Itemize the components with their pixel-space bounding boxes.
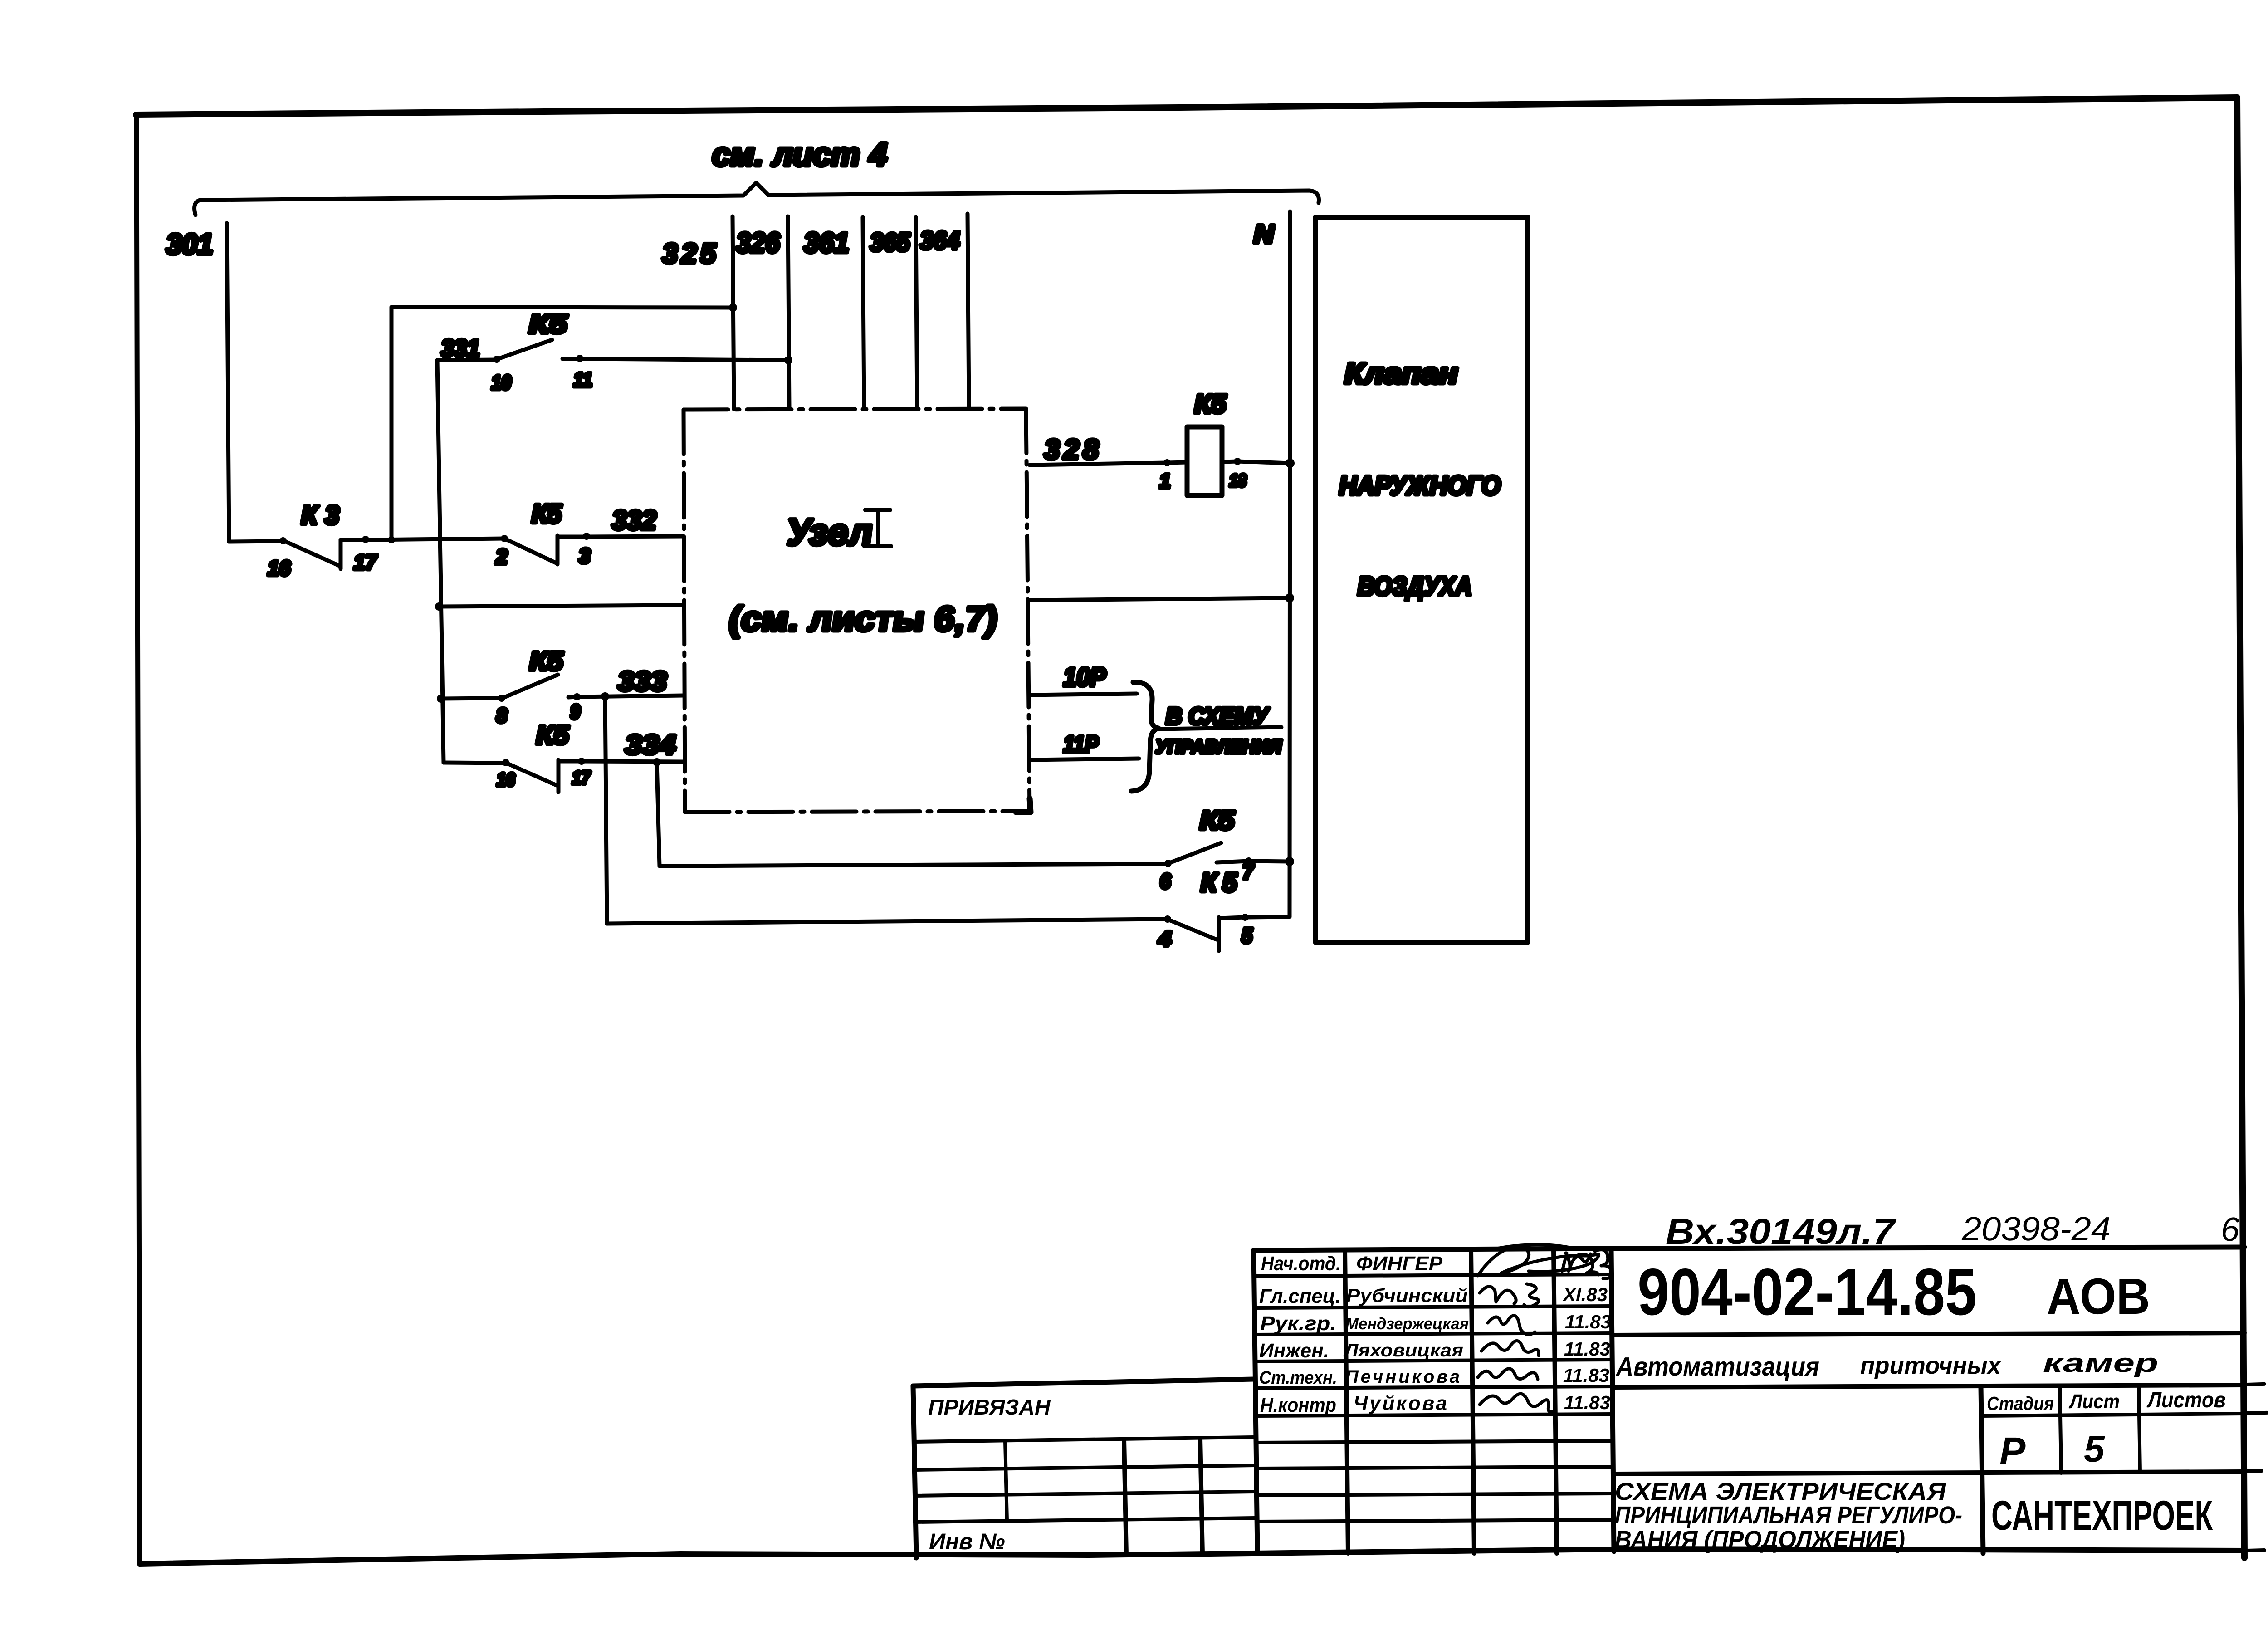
wire 301 to contact K3:16 [229, 541, 283, 542]
junction for drop to contact 6 row [653, 758, 661, 766]
wire from K5:9 to block (circuit 333) [568, 695, 684, 697]
staff table left edge [1254, 1250, 1257, 1553]
valve box Клапан наружного воздуха [1315, 217, 1528, 942]
staff table col line (date) [1554, 1249, 1557, 1553]
svg-text:4: 4 [1158, 927, 1171, 950]
svg-text:К5: К5 [529, 309, 567, 339]
svg-text:Ст.техн.: Ст.техн. [1259, 1368, 1337, 1388]
svg-text:ВАНИЯ (ПРОДОЛЖЕНИЕ): ВАНИЯ (ПРОДОЛЖЕНИЕ) [1615, 1526, 1905, 1553]
drop wire from 334 row to contact 6 row [657, 762, 1168, 866]
svg-text:ВОЗДУХА: ВОЗДУХА [1358, 572, 1472, 601]
svg-text:334: 334 [625, 729, 676, 760]
svg-text:Н.контр: Н.контр [1260, 1394, 1336, 1416]
svg-text:Мендзержецкая: Мендзержецкая [1345, 1314, 1469, 1333]
node dot at pin 17 of 334 [578, 758, 585, 765]
contact K3 16-17 (NO contact of relay K3) [279, 537, 341, 569]
svg-text:ПРИВЯЗАН: ПРИВЯЗАН [928, 1395, 1051, 1420]
PRIVYAZAN col 1 [1005, 1441, 1007, 1521]
staff row line 5 [1255, 1386, 1613, 1388]
svg-text:325: 325 [662, 238, 717, 269]
svg-text:К5: К5 [529, 646, 563, 676]
svg-text:Нач.отд.: Нач.отд. [1261, 1253, 1341, 1275]
border frame bottom [140, 1549, 2244, 1564]
PRIVYAZAN col 2 [1124, 1439, 1126, 1555]
name row bottom [1614, 1385, 2244, 1387]
wire block to N (unlabeled row) [1030, 598, 1290, 600]
block Узел I outline (dash-dot) [684, 409, 1030, 812]
junction on N at unlabeled row [1285, 593, 1294, 602]
svg-text:N: N [1254, 220, 1275, 248]
staff row line 6 [1256, 1414, 1613, 1416]
staff row line 9 [1256, 1493, 1613, 1495]
wire 301 vertical [227, 223, 229, 542]
svg-text:НАРУЖНОГО: НАРУЖНОГО [1339, 471, 1501, 500]
svg-text:Листов: Листов [2146, 1388, 2226, 1412]
svg-text:САНТЕХПРОЕК: САНТЕХПРОЕК [1991, 1493, 2213, 1539]
svg-text:364: 364 [920, 226, 960, 255]
vertical between Стадия and Лист [2060, 1386, 2061, 1473]
contact K5 2-3 (NO contact, circuit 332) [501, 535, 557, 564]
wire pin 18 to N [1237, 461, 1290, 463]
PRIVYAZAN col 3 [1200, 1438, 1202, 1555]
relay coil K5 [1187, 427, 1222, 495]
middle row wire into block [439, 605, 684, 607]
TITLE BLOCK [913, 1247, 2268, 1558]
svg-text:6: 6 [2221, 1210, 2240, 1248]
wire 365 [916, 217, 917, 409]
node dot at pin 5 [1242, 914, 1249, 921]
svg-text:17: 17 [354, 550, 377, 574]
continuation dashes right of border 3 [2246, 1470, 2268, 1471]
svg-text:10: 10 [491, 372, 511, 394]
junction 17-side node dot [362, 536, 369, 543]
svg-text:УПРАВЛЕНИЯ: УПРАВЛЕНИЯ [1155, 736, 1282, 757]
signature scribble 5 (Печникова) [1478, 1369, 1538, 1379]
svg-text:361: 361 [804, 227, 849, 259]
svg-text:ФИНГЕР: ФИНГЕР [1356, 1253, 1443, 1275]
svg-text:333: 333 [618, 666, 667, 696]
continuation dashes right of border 1 [2246, 1384, 2268, 1385]
signature scribble 3 (Мендзержецкая) [1488, 1316, 1535, 1335]
staff table right edge [1611, 1248, 1614, 1552]
border frame left [137, 116, 140, 1563]
wire from K5:11 to wire 326 [562, 359, 788, 360]
svg-text:6: 6 [1160, 869, 1171, 893]
staff row line 8 [1256, 1467, 1613, 1469]
signature scribble 6 (Чуйкова) [1480, 1394, 1556, 1412]
svg-text:В СХЕМУ: В СХЕМУ [1166, 703, 1270, 729]
junction on wire 326 [784, 356, 792, 364]
PRIVYAZAN row c [915, 1518, 1255, 1522]
svg-text:Чуйкова: Чуйкова [1354, 1392, 1447, 1415]
staff table col line (name) [1345, 1250, 1348, 1553]
svg-text:К5: К5 [1194, 389, 1227, 419]
svg-text:9: 9 [570, 701, 580, 723]
note underline [1158, 727, 1281, 729]
wire row 334 start [444, 763, 506, 763]
border frame right [2237, 98, 2244, 1558]
date scribble row1 (И.83) [1562, 1250, 1612, 1279]
staff row line 7 [1256, 1441, 1613, 1443]
wire riser to 325 feeder row [390, 307, 394, 540]
contact K5 4-5 (NC contact) [1164, 915, 1219, 951]
svg-text:20398-24: 20398-24 [1961, 1210, 2111, 1248]
PRIVYAZAN header bottom [914, 1437, 1254, 1442]
svg-text:18: 18 [1229, 471, 1247, 490]
bracket line to sheet 4 [195, 183, 1319, 215]
svg-text:(см. листы 6,7): (см. листы 6,7) [727, 600, 1001, 638]
junction for drop to contact 4 row [601, 692, 609, 700]
block corner arrow tick [1016, 798, 1031, 812]
svg-text:11: 11 [573, 369, 592, 391]
date scribble 1 [1566, 1253, 1598, 1275]
signature scribble 1 (Фингер) [1478, 1245, 1599, 1276]
svg-text:11.83: 11.83 [1564, 1338, 1610, 1360]
PRIVYAZAN table left edge [913, 1386, 916, 1558]
svg-text:17: 17 [572, 768, 591, 788]
wire coil to pin 18 [1222, 461, 1237, 462]
wire 325 [733, 216, 734, 409]
svg-text:2: 2 [495, 545, 508, 568]
staff row line 4 [1255, 1360, 1613, 1361]
junction at riser to 325 row [388, 536, 395, 543]
svg-text:Лист: Лист [2068, 1390, 2120, 1413]
brace to control circuit [1131, 682, 1158, 791]
wire 364 [968, 214, 969, 408]
wire 361 [863, 217, 864, 409]
svg-text:332: 332 [612, 505, 656, 535]
wire from K5:17 to block (circuit 334) [558, 761, 684, 762]
wire pin1 to coil [1167, 462, 1187, 463]
signature scribble 4 (Ляховицкая) [1481, 1341, 1539, 1356]
staff row line 3 [1255, 1333, 1613, 1335]
node dot at pin 9 [573, 693, 581, 700]
svg-text:приточных: приточных [1860, 1352, 2002, 1379]
contact K5 6-7 (NO contact) [1164, 843, 1221, 867]
staff table col line (signature) [1471, 1249, 1474, 1553]
svg-text:Клапан: Клапан [1344, 357, 1458, 390]
staff row line 10 [1256, 1520, 1613, 1522]
node dot at pin 7 [1245, 857, 1252, 865]
svg-text:АОВ: АОВ [2047, 1268, 2150, 1325]
svg-text:301: 301 [166, 228, 213, 260]
signature scribble 2 (Рубчинский) [1480, 1284, 1539, 1307]
svg-text:Рубчинский: Рубчинский [1346, 1285, 1468, 1306]
node dot at pin 11 [576, 355, 583, 362]
stadia header bottom [1981, 1414, 2244, 1416]
svg-text:камер: камер [2043, 1348, 2158, 1378]
svg-text:К5: К5 [536, 720, 569, 750]
svg-text:11Р: 11Р [1063, 731, 1099, 758]
svg-text:1: 1 [1159, 470, 1170, 492]
continuation dashes right of border 2 [2246, 1412, 2268, 1413]
svg-text:11.83: 11.83 [1563, 1365, 1609, 1386]
svg-text:Ляховицкая: Ляховицкая [1343, 1341, 1463, 1361]
svg-text:904-02-14.85: 904-02-14.85 [1637, 1255, 1977, 1329]
svg-text:К5: К5 [532, 499, 562, 529]
wire 328 from block to relay coil [1030, 463, 1167, 465]
contact K5 8-9 (NO contact, circuit 333) [498, 675, 558, 702]
roman numeral I of block name [865, 510, 891, 546]
continuation dashes right of border 4 [2246, 1550, 2268, 1551]
svg-text:16: 16 [497, 770, 515, 790]
wire 332 from K5:3 to block [557, 536, 684, 537]
staff row line 2 [1255, 1306, 1612, 1308]
svg-text:11.83: 11.83 [1565, 1311, 1611, 1332]
svg-text:10Р: 10Р [1063, 662, 1106, 692]
border frame top [136, 98, 2237, 115]
wire from K5:7 to N [1217, 861, 1290, 862]
svg-text:Автоматизация: Автоматизация [1615, 1352, 1819, 1381]
wire after K3:17 across to K5:2 [341, 539, 504, 540]
svg-text:Вх.30149л.7: Вх.30149л.7 [1666, 1211, 1897, 1252]
drop wire from 333 row to contact 4 row [605, 696, 1168, 924]
svg-text:Гл.спец.: Гл.спец. [1259, 1285, 1341, 1307]
svg-text:328: 328 [1044, 434, 1099, 465]
PRIVYAZAN row b [914, 1492, 1255, 1496]
PRIVYAZAN table outline top [913, 1379, 1254, 1386]
stadia cells bottom [1614, 1472, 2244, 1474]
svg-text:365: 365 [870, 228, 910, 256]
wire row 333 start [441, 698, 502, 699]
contact K5 16-17 (NC contact, circuit 334) [502, 759, 558, 792]
wire 326 [788, 216, 789, 409]
junction on wire 325 [729, 304, 737, 312]
node dot pin 1 [1163, 459, 1171, 466]
svg-text:11.83: 11.83 [1564, 1392, 1610, 1413]
junction tap bus to row 333 [437, 695, 445, 703]
big cell bottom (doc number row) [1614, 1333, 2244, 1335]
left tap bus vertical (feeds rows 331,333,334) [437, 360, 444, 763]
svg-text:Рук.гр.: Рук.гр. [1260, 1312, 1336, 1335]
svg-text:5: 5 [2084, 1429, 2105, 1470]
PRIVYAZAN row a [914, 1465, 1255, 1470]
svg-text:СХЕМА ЭЛЕКТРИЧЕСКАЯ: СХЕМА ЭЛЕКТРИЧЕСКАЯ [1615, 1478, 1947, 1505]
node dot pin 18 [1234, 458, 1241, 465]
svg-text:К5: К5 [1200, 806, 1235, 835]
wire 11Р stub [1030, 759, 1139, 760]
wire 10Р stub [1030, 694, 1137, 695]
svg-text:Инжен.: Инжен. [1259, 1340, 1329, 1362]
svg-text:Стадия: Стадия [1987, 1393, 2054, 1414]
junction tap bus to middle row [435, 602, 443, 611]
wire 331 row start [437, 360, 497, 360]
svg-text:см. лист 4: см. лист 4 [712, 137, 887, 173]
svg-text:Инв №: Инв № [929, 1529, 1005, 1554]
title block top edge [1254, 1247, 2244, 1250]
junction on N at 6-7 row [1285, 857, 1294, 866]
node dot at pin 3 [583, 533, 590, 540]
svg-text:3: 3 [579, 544, 591, 568]
svg-text:ХI.83: ХI.83 [1562, 1284, 1608, 1305]
svg-text:Печникова: Печникова [1345, 1367, 1460, 1387]
svg-text:16: 16 [268, 556, 290, 580]
vertical left of Стадия [1981, 1387, 1983, 1553]
wire from K5:5 to N [1219, 917, 1290, 918]
junction on N at coil row [1286, 459, 1295, 468]
svg-text:326: 326 [736, 227, 780, 259]
contact K5 10-11 (NO contact, circuit 331) [493, 340, 552, 363]
wire N vertical [1290, 211, 1290, 917]
vertical between Лист and Листов [2139, 1386, 2140, 1473]
wire feeder row to wire 325 [391, 307, 733, 308]
svg-text:5: 5 [1242, 924, 1253, 947]
svg-text:Р: Р [1999, 1429, 2026, 1473]
svg-text:8: 8 [496, 705, 508, 727]
staff row line 1 [1254, 1274, 1612, 1276]
svg-text:ПРИНЦИПИАЛЬНАЯ РЕГУЛИРО-: ПРИНЦИПИАЛЬНАЯ РЕГУЛИРО- [1615, 1502, 1962, 1529]
